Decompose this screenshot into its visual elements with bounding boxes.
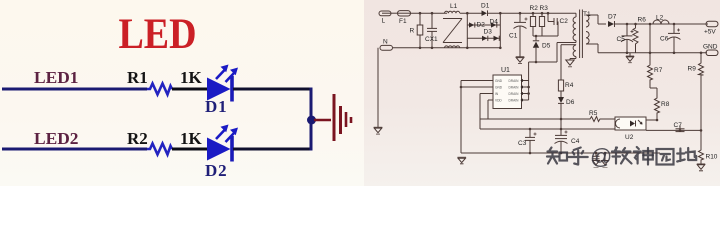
svg-text:C1: C1 xyxy=(509,33,518,40)
wire secondary bottom xyxy=(586,44,598,53)
wire feedback tap xyxy=(649,24,651,64)
svg-text:U1: U1 xyxy=(501,67,510,74)
svg-text:R9: R9 xyxy=(688,66,697,73)
capacitor C5 xyxy=(617,24,634,53)
svg-text:C4: C4 xyxy=(571,138,580,145)
wire R1 to D1 xyxy=(172,88,208,91)
svg-text:F1: F1 xyxy=(399,18,407,25)
svg-text:D1: D1 xyxy=(205,97,227,116)
svg-text:1K: 1K xyxy=(180,68,203,87)
wire primary to drain xyxy=(529,41,576,101)
aux winding xyxy=(570,45,576,59)
ground (input) xyxy=(374,127,383,134)
terminal N xyxy=(380,39,393,51)
svg-text:R2: R2 xyxy=(127,129,148,148)
capacitor CX1 xyxy=(425,13,438,48)
terminal L xyxy=(379,11,391,25)
svg-text:GND: GND xyxy=(703,44,718,51)
wire U1 drain pins xyxy=(520,79,528,102)
ground (analog return) xyxy=(602,153,609,168)
terminal GND xyxy=(703,44,718,56)
svg-text:D2: D2 xyxy=(205,161,227,180)
resistor R9 xyxy=(688,62,704,75)
ground (aux) xyxy=(566,59,574,67)
watermark glyph 知 xyxy=(547,148,567,164)
wire R2 to D2 xyxy=(172,148,208,151)
polarity mark C1 xyxy=(525,18,528,21)
svg-text:CX1: CX1 xyxy=(425,36,438,43)
capacitor C3 xyxy=(518,129,535,153)
ground (C8) xyxy=(593,161,600,168)
capacitor C1 xyxy=(509,13,527,53)
IC U1 xyxy=(493,67,522,109)
wire bottom return rail xyxy=(461,152,660,154)
capacitor C7 xyxy=(674,122,685,132)
wire secondary top xyxy=(586,15,606,24)
wire routing line B xyxy=(480,128,615,130)
LED D1 xyxy=(207,65,238,102)
resistor R8 xyxy=(655,97,670,120)
capacitor C4 xyxy=(555,129,580,153)
wire to ground xyxy=(314,119,331,122)
svg-text:GND: GND xyxy=(495,86,503,90)
ground (U1 return) xyxy=(458,157,467,164)
svg-text:DRAIN: DRAIN xyxy=(509,79,520,83)
capacitor C6 xyxy=(660,24,681,53)
svg-text:LED2: LED2 xyxy=(34,129,79,148)
svg-text:R3: R3 xyxy=(540,5,549,12)
svg-text:DRAIN: DRAIN xyxy=(509,86,520,90)
fuse F1 xyxy=(391,11,411,25)
wire U1 feedback pin xyxy=(480,94,493,130)
optocoupler U2 xyxy=(615,117,646,141)
junction dots xyxy=(419,12,703,154)
svg-text:R6: R6 xyxy=(638,17,647,24)
diode D1 xyxy=(481,3,576,17)
wire choke to bridge xyxy=(460,12,484,14)
ground (left circuit) xyxy=(334,94,351,141)
watermark glyph 园 xyxy=(657,149,674,165)
svg-text:C5: C5 xyxy=(617,36,626,43)
watermark glyph 地 xyxy=(677,148,696,162)
inductor L2 xyxy=(653,15,669,25)
resistor R (input) xyxy=(410,13,423,48)
ground (output rail) xyxy=(626,53,634,63)
wire U2 right pins xyxy=(646,120,701,130)
polarity mark C4 xyxy=(565,131,568,134)
svg-text:GND: GND xyxy=(495,79,503,83)
ground (C1) xyxy=(516,53,525,64)
polarity mark C3 xyxy=(534,133,537,136)
svg-text:1K: 1K xyxy=(180,129,203,148)
svg-text:R: R xyxy=(410,28,415,35)
svg-text:@: @ xyxy=(590,144,612,169)
wire input earth xyxy=(377,48,379,127)
svg-text:D3: D3 xyxy=(484,29,493,36)
wire output ground rail xyxy=(598,52,707,54)
resistor R2 xyxy=(530,5,539,36)
watermark glyph 神 xyxy=(634,147,653,165)
svg-text:C2: C2 xyxy=(560,18,569,25)
wire LED1 left xyxy=(2,88,147,91)
svg-text:U2: U2 xyxy=(625,134,634,141)
svg-text:D1: D1 xyxy=(481,3,490,10)
wire right rail xyxy=(700,53,702,149)
resistor R1 xyxy=(147,84,172,95)
wire vertical join xyxy=(310,88,313,151)
svg-text:R10: R10 xyxy=(706,154,718,161)
svg-text:L2: L2 xyxy=(656,15,664,22)
background left xyxy=(0,0,720,186)
diode D7 xyxy=(608,14,708,28)
svg-text:R5: R5 xyxy=(589,110,598,117)
wire snubber node xyxy=(533,35,558,37)
svg-text:C7: C7 xyxy=(674,122,683,129)
wire routing line A xyxy=(480,119,589,129)
svg-text:L: L xyxy=(382,18,386,25)
diode D6 xyxy=(558,97,575,119)
polarity mark C5 xyxy=(631,30,634,33)
wire U1 gnd pins xyxy=(461,81,493,154)
svg-text:R7: R7 xyxy=(654,67,663,74)
svg-text:D7: D7 xyxy=(608,14,617,21)
resistor R2a xyxy=(147,144,172,155)
svg-text:C6: C6 xyxy=(660,36,669,43)
wire LED2 left xyxy=(2,148,147,151)
svg-text:R1: R1 xyxy=(127,68,148,87)
svg-text:LED1: LED1 xyxy=(34,68,79,87)
diode D5 xyxy=(533,36,551,62)
diode D8 (bridge) xyxy=(494,36,500,41)
svg-text:DRAIN: DRAIN xyxy=(509,99,520,103)
terminal +5V xyxy=(704,21,718,35)
svg-text:LED: LED xyxy=(119,10,197,58)
resistor R10 xyxy=(699,149,718,161)
svg-text:R4: R4 xyxy=(565,82,574,89)
capacitor C2 xyxy=(548,13,568,36)
junction node dot xyxy=(307,116,316,125)
capacitor C8 (small bypass) xyxy=(593,153,600,161)
wire D1 to corner xyxy=(233,88,313,91)
transformer T1 xyxy=(573,10,591,59)
background right (pinkish panel) xyxy=(364,0,720,186)
resistor R7 xyxy=(648,64,663,97)
watermark 知乎@牧神园地 xyxy=(547,144,696,169)
diode D4 xyxy=(490,19,499,28)
wire bottom rail xyxy=(393,47,500,49)
svg-text:N: N xyxy=(383,39,388,46)
bridge rectifier legs xyxy=(467,13,500,48)
diode D3 xyxy=(482,29,492,41)
svg-text:C3: C3 xyxy=(518,140,527,147)
polarity mark C6 xyxy=(677,29,680,32)
wire top rail xyxy=(411,12,447,14)
svg-text:VDD: VDD xyxy=(495,99,502,103)
wire U1 vdd pin xyxy=(488,100,493,119)
svg-text:+5V: +5V xyxy=(704,29,716,36)
svg-text:R8: R8 xyxy=(661,101,670,108)
LED D2 xyxy=(207,125,238,162)
svg-text:D2: D2 xyxy=(477,22,486,29)
resistor R6 xyxy=(633,17,646,53)
wire aux to R4 xyxy=(561,45,576,80)
wire D2 to corner xyxy=(233,148,313,151)
svg-text:D4: D4 xyxy=(490,19,499,26)
svg-text:R2: R2 xyxy=(530,5,539,12)
resistor R5 xyxy=(589,110,615,122)
diode D2 xyxy=(469,22,485,29)
svg-text:DRAIN: DRAIN xyxy=(509,92,520,96)
inductor L1 common-mode choke xyxy=(443,3,462,48)
svg-text:L1: L1 xyxy=(450,3,458,10)
watermark glyph 牧 xyxy=(612,148,632,164)
watermark glyph 乎 xyxy=(569,148,588,165)
resistor R4 xyxy=(558,80,573,97)
svg-text:D6: D6 xyxy=(566,99,575,106)
resistor R3 xyxy=(539,5,548,36)
ground (R10) xyxy=(697,161,705,171)
svg-text:D5: D5 xyxy=(542,43,551,50)
